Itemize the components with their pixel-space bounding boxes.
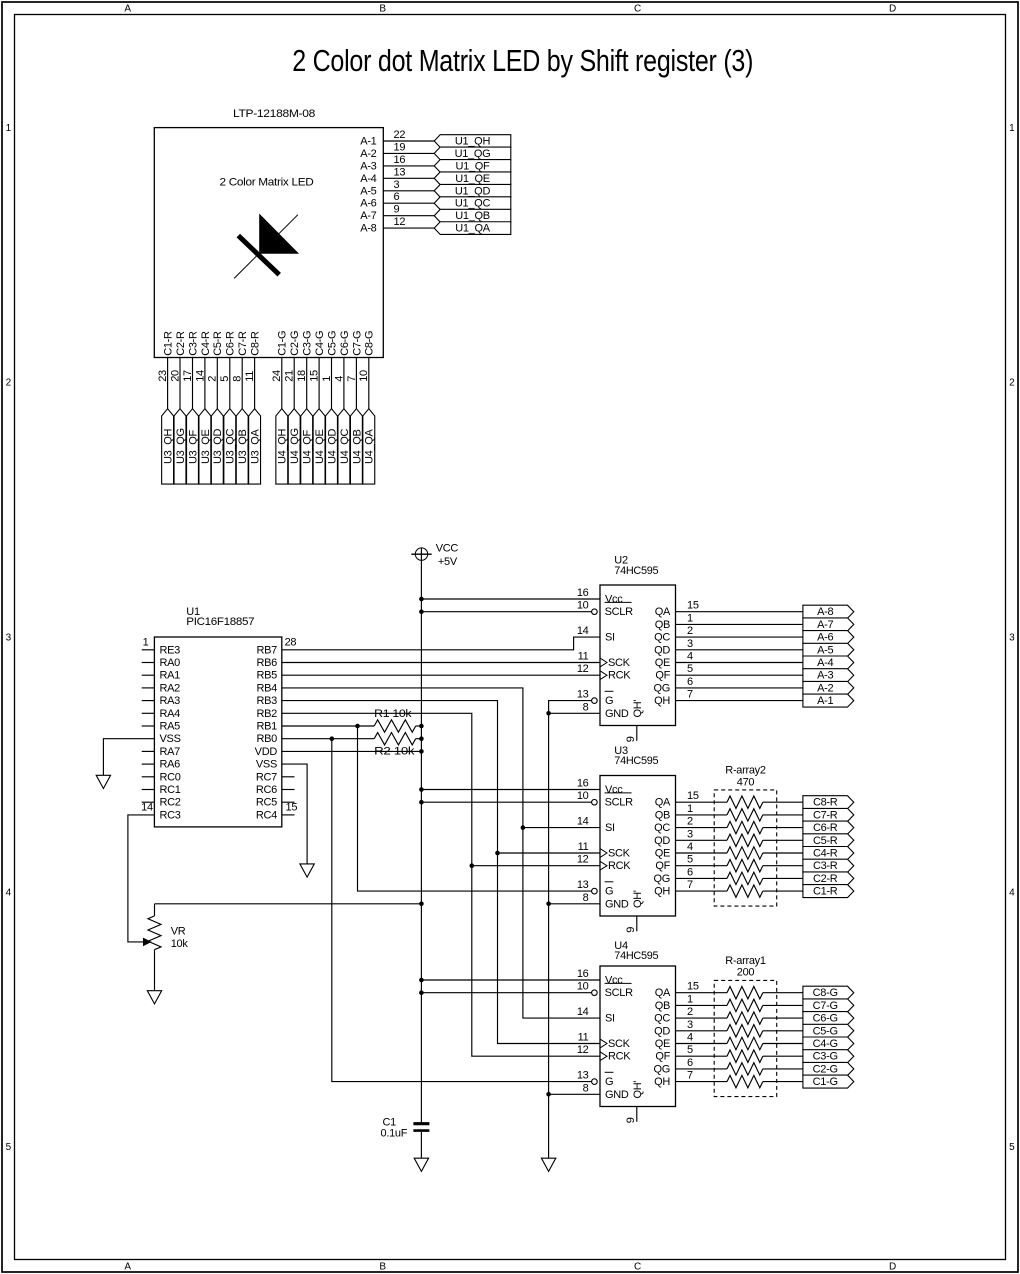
wire VCC to U3 Vcc [421,789,600,791]
U1 left pin VSS [160,733,181,745]
svg-text:RA0: RA0 [160,657,181,669]
junction GND bus U4 GND [546,1092,551,1097]
wire U2 G to GND bus [549,701,592,1159]
matrix pin A-6 (pin 6) wire [360,191,434,210]
wire RB6 to U2 SCK [282,662,600,664]
net flag U4_QB [350,409,363,484]
svg-text:QH: QH [654,1076,670,1088]
svg-text:11: 11 [244,371,256,382]
svg-text:15: 15 [687,790,699,802]
svg-text:15: 15 [286,801,298,813]
svg-text:A-3: A-3 [360,160,376,172]
svg-text:7: 7 [687,879,693,891]
svg-text:QF: QF [655,1051,670,1063]
svg-text:C1-R: C1-R [813,886,838,898]
resistor array element C4-G [727,1037,763,1049]
svg-text:U1_QA: U1_QA [455,223,491,235]
svg-text:C8-R: C8-R [813,797,838,809]
wire GND bus to U3 GND [549,903,600,905]
svg-text:QH: QH [654,695,670,707]
svg-text:C4-R: C4-R [200,331,212,356]
matrix pin C6-R (pin 5) wire [219,331,237,409]
svg-text:5: 5 [687,854,693,866]
net flag U3_QC [224,409,237,484]
svg-text:D: D [889,4,896,15]
svg-text:16: 16 [577,587,589,599]
net flag U3_QH [162,409,175,484]
junction RB4 bus at U3 SI [521,825,526,830]
svg-text:QF: QF [655,670,670,682]
svg-text:RC2: RC2 [160,797,181,809]
U1 right pin RB1 [257,721,278,733]
U4 pin QD (pin 3) wire [654,1019,803,1038]
svg-text:11: 11 [578,651,589,663]
svg-text:6: 6 [394,191,400,203]
U4 pin QE (pin 4) wire [655,1032,803,1051]
svg-text:QC: QC [654,632,670,644]
svg-text:3: 3 [394,179,400,191]
ground symbol VR [147,991,161,1004]
svg-text:QH: QH [654,886,670,898]
resistor array R-array1 200 dashed outline [714,955,777,1097]
junction GND bus U2 GND [546,711,551,716]
svg-text:19: 19 [394,141,406,153]
svg-text:10k: 10k [171,938,189,950]
net flag U1_QF [434,160,511,173]
svg-text:17: 17 [182,370,194,382]
net flag U1_QG [434,147,511,160]
svg-text:RC5: RC5 [256,797,277,809]
svg-text:5: 5 [219,376,231,382]
svg-text:16: 16 [394,154,406,166]
U4 pin 12 RCK clock [577,1044,631,1063]
LED symbol inside matrix [234,215,298,279]
svg-text:7: 7 [687,689,693,701]
U1 left pin RA0 [142,657,180,669]
svg-text:SCK: SCK [608,657,631,669]
svg-text:12: 12 [577,663,589,675]
svg-text:13: 13 [577,1070,589,1082]
U1 left pin RA6 [142,759,180,771]
matrix pin A-1 (pin 22) wire [360,129,434,148]
U4 pin QC (pin 2) wire [654,1006,803,1025]
net flag C3-G [803,1050,854,1063]
svg-text:U3_QC: U3_QC [225,428,237,464]
resistor array element C8-G [727,987,763,999]
U2 pin 9 QH' stub [625,700,644,743]
net flag A-5 [803,643,854,656]
svg-text:U1_QD: U1_QD [455,185,491,197]
svg-text:C7-G: C7-G [351,331,363,356]
svg-text:RC3: RC3 [160,809,181,821]
svg-text:VDD: VDD [255,746,278,758]
svg-text:1: 1 [6,123,12,134]
wire RB3 to U3/U4 SCK bus [282,701,600,1044]
svg-text:1: 1 [321,376,333,382]
svg-text:RB4: RB4 [257,682,278,694]
svg-text:A-8: A-8 [360,223,376,235]
svg-text:C2-R: C2-R [175,331,187,356]
wire VCC to U2 Vcc [421,598,600,600]
U3 pin 8 GND [583,892,629,911]
wire U1 VSS right to ground [282,764,307,864]
svg-text:U4_QA: U4_QA [364,428,376,464]
U4 pin 8 GND [583,1082,629,1101]
net flag C6-R [803,821,854,834]
U1 right pin RB2 [257,708,278,720]
svg-text:QD: QD [654,644,670,656]
U2 pin 12 RCK clock [577,663,631,682]
net flag U3_QF [187,409,200,484]
wire VR top to VCC rail [155,904,422,916]
net flag U3_QE [199,409,212,484]
svg-text:14: 14 [194,370,206,382]
svg-text:C7-R: C7-R [237,331,249,356]
svg-text:2 Color Matrix LED: 2 Color Matrix LED [220,177,314,189]
U3 pin 10 SCLR (active low) [577,790,633,809]
ground symbol at GND bus bottom [541,1158,555,1171]
U1 right pin RB4 [257,682,278,694]
U3 pin QF (pin 5) wire [655,854,803,873]
svg-text:C3-G: C3-G [813,1051,838,1063]
U3 pin 11 SCK clock [578,841,631,860]
svg-text:C7-R: C7-R [813,809,838,821]
resistor array element C5-R [727,834,763,846]
matrix pin C6-G (pin 4) wire [333,331,351,409]
svg-text:C2-R: C2-R [813,873,838,885]
svg-text:Vcc: Vcc [605,784,623,796]
svg-text:8: 8 [232,376,244,382]
wire VCC to U2 SCLR [421,611,591,613]
svg-text:28: 28 [285,637,297,649]
U3 pin QA (pin 15) wire [655,790,803,809]
svg-text:200: 200 [737,967,755,979]
net flag C7-R [803,808,854,821]
svg-text:3: 3 [687,1019,693,1031]
svg-text:RB0: RB0 [257,733,278,745]
svg-text:U3_QD: U3_QD [212,428,224,464]
shift register U4 74HC595 body [600,940,676,1107]
svg-text:QH': QH' [632,700,644,718]
net flag U3_QD [211,409,224,484]
net flag A-2 [803,681,854,694]
svg-text:2: 2 [1009,378,1015,389]
U2 pin 8 GND [583,701,629,720]
matrix pin C3-R (pin 17) wire [182,331,200,409]
microcontroller U1 PIC16F18857 body [154,606,281,827]
svg-text:QA: QA [655,987,671,999]
matrix pin A-7 (pin 9) wire [360,204,434,223]
U1 right pin RB3 [257,695,278,707]
svg-text:5: 5 [6,1142,12,1153]
net flag C5-R [803,834,854,847]
net flag A-4 [803,656,854,669]
svg-text:RA4: RA4 [160,708,181,720]
U3 pin 14 SI [577,816,615,835]
net flag U4_QF [301,409,314,484]
svg-text:13: 13 [577,879,589,891]
svg-text:C: C [634,4,641,15]
svg-text:3: 3 [687,828,693,840]
svg-text:RA1: RA1 [160,670,181,682]
LED matrix module LTP-12188M-08 body [154,108,383,358]
svg-text:14: 14 [577,1006,589,1018]
matrix pin A-8 (pin 12) wire [360,216,434,235]
svg-text:U3_QE: U3_QE [200,429,212,464]
matrix pin C2-R (pin 20) wire [169,331,187,409]
junction R2 at VCC rail [419,736,424,741]
svg-text:9: 9 [625,1117,637,1123]
svg-text:4: 4 [6,887,12,898]
matrix pin C4-R (pin 14) wire [194,331,212,409]
matrix pin A-3 (pin 16) wire [360,154,434,173]
U2 pin QE (pin 4) wire [655,651,803,670]
matrix pin C8-G (pin 10) wire [358,331,376,409]
resistor array element C6-G [727,1012,763,1024]
svg-text:RCK: RCK [608,670,631,682]
net flag U4_QE [313,409,326,484]
svg-text:C6-G: C6-G [813,1013,838,1025]
U4 pin QA (pin 15) wire [655,981,803,1000]
U4 pin 9 QH' stub [625,1081,644,1124]
svg-text:4: 4 [687,651,693,663]
svg-text:2: 2 [6,378,12,389]
svg-text:8: 8 [583,701,589,713]
svg-text:9: 9 [625,736,637,742]
svg-text:QC: QC [654,822,670,834]
svg-text:10: 10 [577,600,589,612]
svg-text:13: 13 [577,689,589,701]
svg-text:A-2: A-2 [817,682,833,694]
svg-text:8: 8 [583,892,589,904]
svg-text:12: 12 [394,216,406,228]
matrix pin C1-R (pin 23) wire [157,331,175,409]
svg-text:U3_QF: U3_QF [187,429,199,464]
net flag C2-R [803,872,854,885]
svg-text:11: 11 [578,1032,589,1044]
svg-text:QH': QH' [632,1081,644,1099]
net flag U4_QD [326,409,339,484]
svg-text:RCK: RCK [608,1051,631,1063]
svg-text:C2-G: C2-G [289,331,301,356]
U3 pin QD (pin 3) wire [654,828,803,847]
svg-text:6: 6 [687,1057,693,1069]
svg-text:A-7: A-7 [360,210,376,222]
svg-text:QH': QH' [632,890,644,908]
svg-text:1: 1 [687,612,693,624]
svg-text:R-array2: R-array2 [725,765,766,777]
svg-text:RA2: RA2 [160,682,181,694]
svg-text:B: B [379,1262,386,1273]
U1 right pin RB6 [257,657,278,669]
net flag U3_QB [236,409,249,484]
svg-text:10: 10 [358,370,370,382]
svg-text:RC1: RC1 [160,784,181,796]
svg-text:+5V: +5V [438,556,458,568]
junction RB0 node [330,736,335,741]
svg-text:1: 1 [1009,123,1015,134]
svg-text:U1_QF: U1_QF [456,160,491,172]
wire RB0 to R2 and U4 G [282,739,592,1082]
junction VCC rail U2 Vcc [419,597,424,602]
net flag U4_QH [276,409,289,484]
net flag C8-G [803,986,854,999]
resistor array element C7-R [727,809,763,821]
svg-text:RE3: RE3 [160,644,181,656]
wire U1 VSS left to ground [103,739,154,776]
svg-text:14: 14 [577,625,589,637]
svg-text:RC4: RC4 [256,809,277,821]
resistor array element C3-R [727,860,763,872]
svg-text:15: 15 [687,981,699,993]
U2 pin QB (pin 1) wire [655,612,803,631]
svg-text:74HC595: 74HC595 [614,565,658,577]
resistor array element C8-R [727,796,763,808]
U1 left pin RE3 [142,637,180,657]
wire VCC to U4 SCLR [421,992,591,994]
resistor array element C1-G [727,1075,763,1087]
matrix pin C3-G (pin 18) wire [296,331,314,409]
svg-text:C6-R: C6-R [225,331,237,356]
matrix pin C2-G (pin 21) wire [284,331,302,409]
ground symbol VSS right [300,864,314,877]
svg-text:U4_QC: U4_QC [339,428,351,464]
svg-text:10: 10 [577,790,589,802]
svg-text:18: 18 [296,370,308,382]
U2 pin QF (pin 5) wire [655,663,803,682]
svg-text:23: 23 [157,370,169,382]
svg-text:A-5: A-5 [817,644,833,656]
svg-text:C: C [634,1262,641,1273]
svg-text:SCLR: SCLR [605,987,633,999]
svg-text:QG: QG [653,873,670,885]
wire RB5 to U2 RCK [282,674,600,676]
U4 pin 16 Vcc [577,968,623,987]
net flag C5-G [803,1024,854,1037]
U1 right pin VSS [256,759,277,771]
svg-text:C3-G: C3-G [302,331,314,356]
net flag C1-G [803,1075,854,1088]
svg-text:C3-R: C3-R [187,331,199,356]
svg-text:SCLR: SCLR [605,797,633,809]
junction VR wire at VCC rail [419,902,424,907]
svg-text:VCC: VCC [436,543,459,555]
svg-text:U4_QG: U4_QG [289,428,301,464]
svg-text:RB6: RB6 [257,657,278,669]
svg-text:2: 2 [207,376,219,382]
resistor array element C3-G [727,1050,763,1062]
svg-text:U4_QD: U4_QD [326,428,338,464]
svg-text:RB2: RB2 [257,708,278,720]
svg-text:2 Color dot Matrix LED by Shif: 2 Color dot Matrix LED by Shift register… [292,43,753,78]
wire R2 to VCC rail [416,738,422,740]
svg-text:GND: GND [605,898,629,910]
svg-text:22: 22 [394,129,406,141]
svg-text:C4-G: C4-G [813,1038,838,1050]
svg-text:C8-G: C8-G [813,987,838,999]
U4 pin 13 G (active low) [577,1070,614,1089]
svg-text:15: 15 [309,370,321,382]
U3 pin 12 RCK clock [577,854,631,873]
svg-text:RA6: RA6 [160,759,181,771]
svg-text:A: A [124,1262,131,1273]
svg-text:2: 2 [687,625,693,637]
svg-text:RC0: RC0 [160,771,181,783]
svg-text:6: 6 [687,676,693,688]
svg-text:4: 4 [333,376,345,382]
resistor array element C2-G [727,1063,763,1075]
svg-text:SI: SI [605,1013,615,1025]
ground symbol VSS left [96,775,110,788]
U4 pin QF (pin 5) wire [655,1044,803,1063]
svg-text:D: D [889,1262,896,1273]
svg-text:QB: QB [655,1000,670,1012]
svg-text:RA7: RA7 [160,746,181,758]
U1 left pin RC0 [142,771,181,783]
svg-text:A-1: A-1 [360,136,376,148]
svg-text:C1-R: C1-R [163,331,175,356]
wire RB2 to U3/U4 RCK bus [282,713,600,1056]
net flag U3_QA [249,409,262,484]
resistor array element C6-R [727,821,763,833]
resistor array element C5-G [727,1025,763,1037]
svg-text:U1_QG: U1_QG [455,148,491,160]
net flag U4_QC [338,409,351,484]
svg-text:C7-G: C7-G [813,1000,838,1012]
svg-text:A-6: A-6 [360,198,376,210]
wire GND bus to U4 GND [549,1093,600,1095]
U2 pin 16 Vcc [577,587,623,606]
svg-text:QB: QB [655,619,670,631]
U1 right pin VDD [255,746,278,758]
svg-text:A-2: A-2 [360,148,376,160]
junction VDD at VCC rail [419,749,424,754]
wire RB7 to U2 SI [282,637,600,650]
junction R1 at VCC rail [419,724,424,729]
svg-text:A-4: A-4 [817,657,833,669]
junction GND bus U3 GND [546,902,551,907]
U1 left pin RA2 [142,682,180,694]
U2 pin 14 SI [577,625,615,644]
svg-text:1: 1 [143,637,149,649]
wire VCC to U3 SCLR [421,801,591,803]
svg-text:B: B [379,4,386,15]
svg-text:U4_QF: U4_QF [302,429,314,464]
net flag C3-R [803,859,854,872]
svg-text:A: A [124,4,131,15]
svg-text:U3_QB: U3_QB [237,429,249,464]
svg-text:SI: SI [605,822,615,834]
svg-text:A-1: A-1 [817,695,833,707]
wire VDD to VCC rail [282,750,422,752]
resistor array element C4-R [727,847,763,859]
svg-text:G: G [605,886,613,898]
net flag A-3 [803,669,854,682]
svg-text:5: 5 [1009,1142,1015,1153]
svg-text:15: 15 [687,600,699,612]
svg-text:9: 9 [394,204,400,216]
svg-text:470: 470 [737,777,755,789]
U2 pin 11 SCK clock [578,651,631,670]
net flag U1_QE [434,172,511,185]
svg-text:16: 16 [577,778,589,790]
svg-text:C1-G: C1-G [813,1076,838,1088]
svg-text:RCK: RCK [608,860,631,872]
svg-text:12: 12 [577,1044,589,1056]
svg-text:PIC16F18857: PIC16F18857 [186,616,254,628]
wire RB1 to R1 and U3 G [282,726,592,891]
net flag U1_QA [434,222,511,235]
